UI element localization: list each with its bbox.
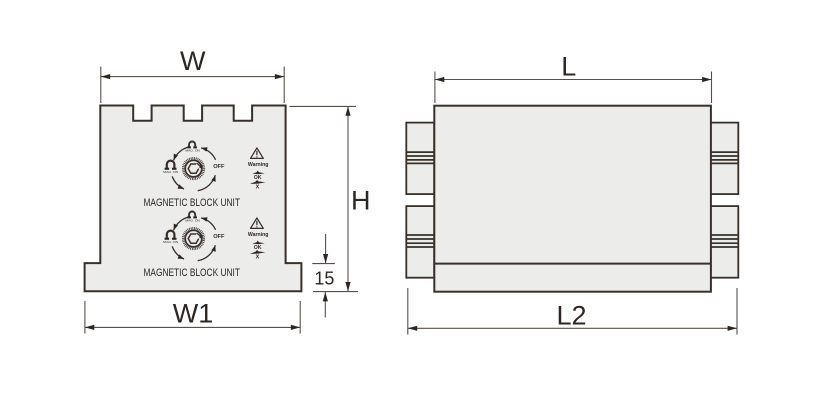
side view base divider [434,263,711,265]
left tab lower [406,206,434,278]
left tab upper [406,123,434,195]
control block 2 [143,212,268,279]
svg-text:W: W [180,46,206,76]
svg-text:15: 15 [314,268,334,288]
side view body [434,106,711,292]
dimension H [290,106,371,291]
right tab lower [711,206,738,278]
dimension 15 [312,234,358,318]
right tab upper [711,123,738,195]
svg-text:L2: L2 [556,301,586,331]
control block 1 [143,142,268,209]
svg-text:W1: W1 [173,299,214,329]
svg-text:H: H [351,185,371,215]
svg-text:L: L [561,52,576,82]
dimension L2 [408,288,737,335]
dimension W1 [85,299,300,334]
dimension W [101,46,284,103]
dimension L [435,52,712,104]
front view body [85,106,302,292]
